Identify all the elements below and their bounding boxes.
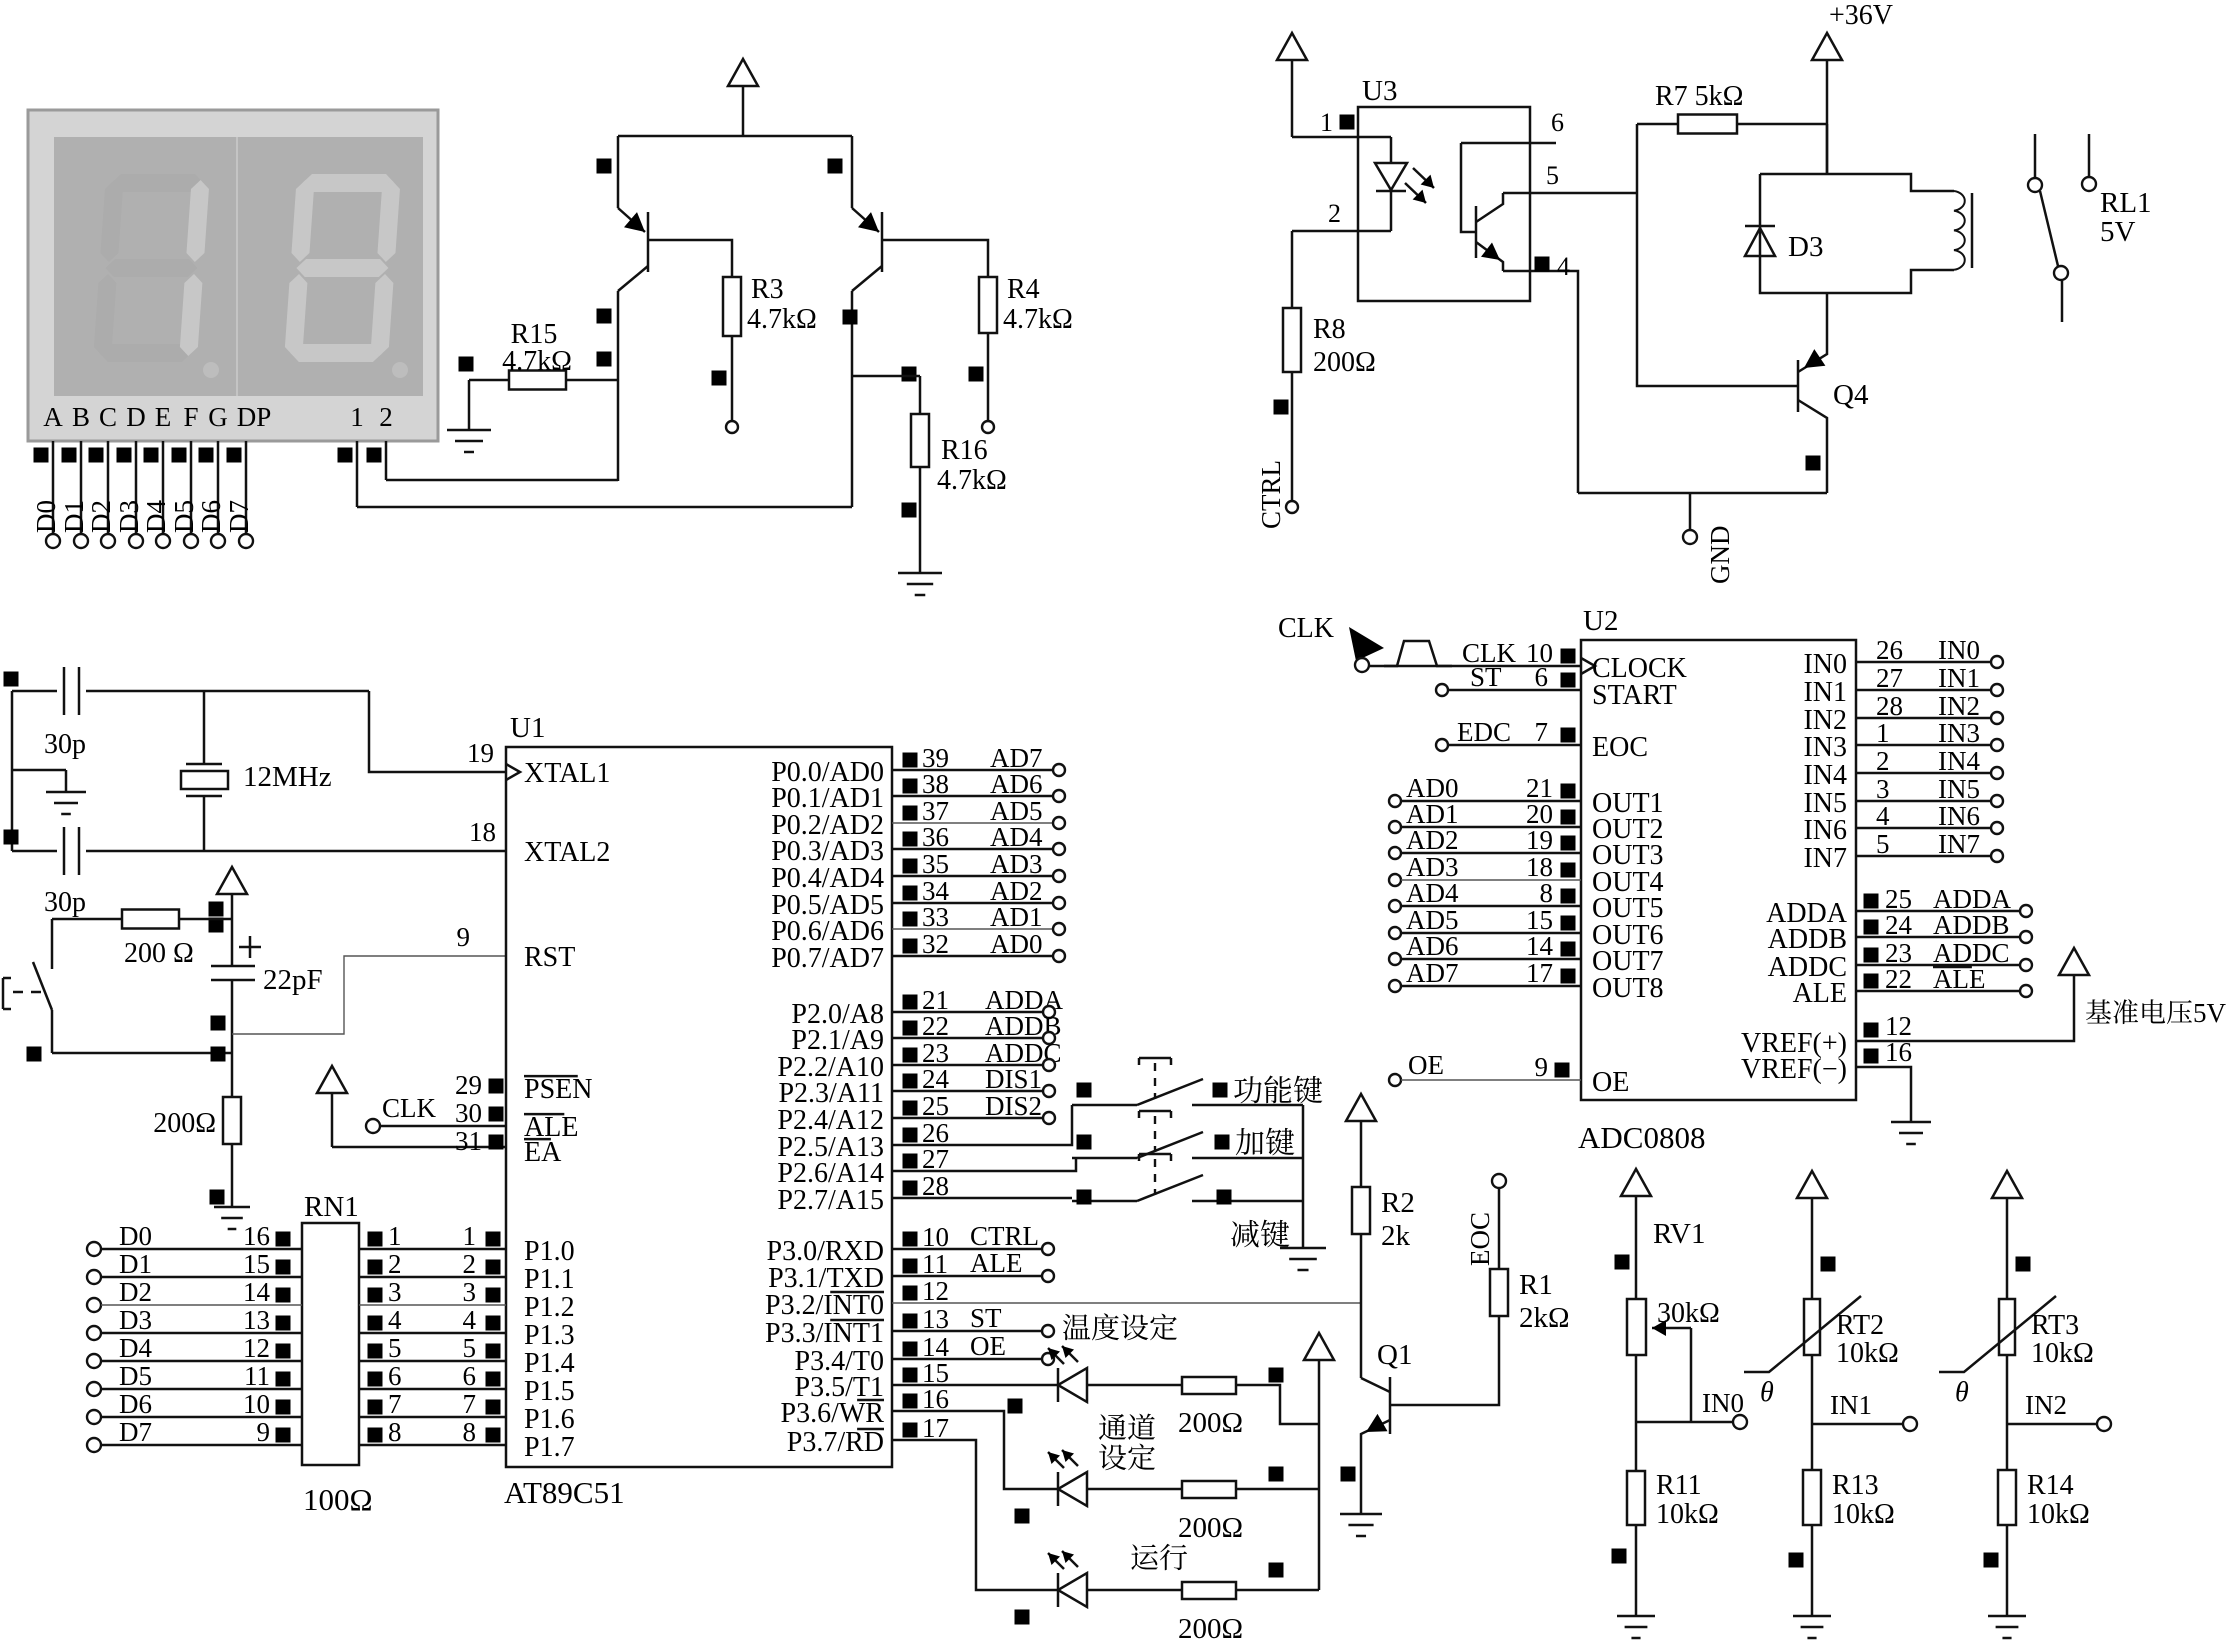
- switch actuator: [2, 978, 5, 1009]
- svg-text:27: 27: [922, 1144, 949, 1174]
- svg-text:D3: D3: [114, 500, 144, 533]
- wire AD4 to U2: [1389, 900, 1401, 912]
- wire ADDB: [892, 1037, 1043, 1040]
- capacitor 22pF plus sign: [239, 946, 261, 949]
- svg-text:D0: D0: [119, 1221, 152, 1251]
- wire Q1 base to R1: [1390, 1316, 1499, 1405]
- wire RN1 to U1 P1.7: [359, 1444, 506, 1447]
- wire P0 row AD3: [892, 875, 1053, 878]
- svg-text:D3: D3: [1788, 231, 1823, 263]
- wire pin2 to R8: [1291, 231, 1294, 308]
- svg-text:RV1: RV1: [1653, 1218, 1705, 1250]
- wire DIS2: [892, 1117, 1043, 1120]
- svg-text:DIS2: DIS2: [985, 1091, 1042, 1121]
- resistor R16: [919, 376, 922, 414]
- svg-text:AD3: AD3: [990, 849, 1043, 879]
- svg-text:19: 19: [467, 738, 494, 768]
- power VCC (EA): [317, 1066, 347, 1093]
- svg-text:11: 11: [244, 1361, 270, 1391]
- wire D0 to RN1: [87, 1242, 101, 1256]
- wire IN0: [1856, 661, 1991, 664]
- display pin D2 lead: [107, 441, 110, 534]
- svg-text:RST: RST: [524, 942, 575, 973]
- svg-text:P3.7/RD: P3.7/RD: [787, 1427, 884, 1458]
- pin 4 wire: [1503, 271, 1578, 493]
- resistor R7: [1637, 123, 1678, 126]
- transistor Q1: [1389, 1377, 1392, 1434]
- wire Q2 collector: [617, 291, 620, 481]
- svg-text:R3: R3: [751, 274, 784, 305]
- capacitor C3 22pF: [211, 965, 255, 968]
- svg-text:24: 24: [922, 1064, 950, 1094]
- wire LED2 to VCC line: [1236, 1488, 1319, 1491]
- wire AD0 to U2: [1389, 795, 1401, 807]
- svg-text:ALE: ALE: [1933, 964, 1985, 994]
- svg-text:18: 18: [469, 817, 496, 847]
- wire IN7: [1856, 855, 1991, 858]
- optocoupler U3 box: [1358, 107, 1530, 301]
- decimal point right: [392, 362, 408, 378]
- resistor R13: [1811, 1424, 1814, 1470]
- svg-text:RN1: RN1: [304, 1191, 359, 1223]
- svg-text:RL1: RL1: [2100, 187, 2152, 219]
- reference voltage arrow: [2059, 948, 2089, 975]
- svg-text:U1: U1: [510, 712, 545, 744]
- svg-text:IN6: IN6: [1803, 815, 1847, 846]
- thermistor RT3 diagonal: [1939, 1296, 2056, 1372]
- square left of R15: [459, 357, 474, 372]
- svg-text:9: 9: [457, 922, 471, 952]
- CLK waveform: [1384, 641, 1452, 666]
- node square Q3 collector: [843, 310, 858, 325]
- svg-text:4.7kΩ: 4.7kΩ: [747, 304, 817, 335]
- R4 terminal: [982, 421, 994, 433]
- display pin D4 lead: [162, 441, 165, 534]
- wire AD2 to U2: [1389, 847, 1401, 859]
- svg-text:OUT8: OUT8: [1592, 973, 1664, 1004]
- svg-text:ALE: ALE: [970, 1248, 1022, 1278]
- wire AD6 to U2: [1389, 953, 1401, 965]
- CLOCK clock mark: [1581, 658, 1595, 674]
- svg-text:IN0: IN0: [1938, 635, 1980, 665]
- power VCC (LEDs): [1304, 1333, 1334, 1360]
- svg-text:1: 1: [463, 1221, 477, 1251]
- svg-text:5: 5: [463, 1333, 477, 1363]
- power VCC (RV1): [1621, 1169, 1651, 1196]
- svg-text:30p: 30p: [44, 887, 86, 918]
- wire P0 row AD6: [892, 795, 1053, 798]
- wire IN3: [1856, 744, 1991, 747]
- svg-text:AD0: AD0: [990, 929, 1043, 959]
- svg-text:R7 5kΩ: R7 5kΩ: [1655, 81, 1743, 112]
- svg-text:1: 1: [1876, 718, 1890, 748]
- svg-text:U2: U2: [1583, 605, 1618, 637]
- svg-text:ADDB: ADDB: [1768, 924, 1847, 955]
- resistor R14: [2006, 1424, 2009, 1470]
- svg-text:6: 6: [463, 1361, 477, 1391]
- relay armature: [2040, 191, 2058, 266]
- wire emitter rail: [618, 135, 852, 138]
- relay contact RL1 right: [2088, 134, 2091, 177]
- base wire Q2 to R3: [648, 240, 732, 277]
- svg-text:AD4: AD4: [990, 822, 1043, 852]
- wire IN0: [1636, 1421, 1733, 1424]
- display pin D5 lead: [190, 441, 193, 534]
- wire IN5: [1856, 800, 1991, 803]
- svg-text:22: 22: [922, 1011, 949, 1041]
- resistor R15: [469, 379, 509, 382]
- svg-text:16: 16: [922, 1384, 949, 1414]
- svg-text:17: 17: [1526, 958, 1553, 988]
- svg-text:16: 16: [243, 1221, 270, 1251]
- wire VREF- to ground: [1856, 1067, 1911, 1120]
- squares LED1 row: [1008, 1399, 1023, 1414]
- svg-text:R16: R16: [941, 435, 988, 466]
- svg-text:11: 11: [922, 1249, 948, 1279]
- svg-text:10kΩ: 10kΩ: [1656, 1499, 1719, 1530]
- key S4 (decrease key): [892, 1197, 1072, 1200]
- CLK terminal: [366, 1119, 380, 1133]
- svg-text:P3.6/WR: P3.6/WR: [781, 1398, 885, 1429]
- svg-text:D4: D4: [141, 500, 171, 533]
- display pin D0 lead: [52, 441, 55, 534]
- ground (R14): [2006, 1614, 2009, 1616]
- svg-text:10: 10: [922, 1222, 949, 1252]
- label run: [1131, 1544, 1158, 1570]
- svg-text:200Ω: 200Ω: [1313, 347, 1376, 378]
- svg-text:A: A: [43, 402, 63, 432]
- transistor Q3 (right digit driver): [851, 136, 854, 208]
- svg-text:D5: D5: [119, 1361, 152, 1391]
- wire D4 to RN1: [87, 1354, 101, 1368]
- wire AD7 to U2: [1389, 980, 1401, 992]
- svg-text:30: 30: [455, 1098, 482, 1128]
- svg-text:EDC: EDC: [1457, 717, 1511, 747]
- svg-text:AD1: AD1: [990, 902, 1043, 932]
- resistor R2: [1352, 1187, 1370, 1234]
- svg-text:RT2: RT2: [1836, 1310, 1884, 1341]
- svg-text:XTAL2: XTAL2: [524, 837, 610, 868]
- node squares near Q2: [597, 159, 612, 174]
- power VCC (RST): [217, 867, 247, 894]
- svg-text:10kΩ: 10kΩ: [2031, 1338, 2094, 1369]
- svg-text:14: 14: [243, 1277, 271, 1307]
- svg-text:CLK: CLK: [1278, 613, 1334, 644]
- svg-text:22: 22: [1885, 964, 1912, 994]
- svg-text:6: 6: [388, 1361, 402, 1391]
- svg-text:C: C: [99, 402, 117, 432]
- XTAL1 clock mark: [506, 764, 520, 780]
- svg-text:D4: D4: [119, 1333, 152, 1363]
- svg-text:2: 2: [1328, 199, 1341, 228]
- svg-text:EOC: EOC: [1592, 732, 1648, 763]
- svg-text:5: 5: [1876, 829, 1890, 859]
- keys common bus: [1302, 1105, 1305, 1244]
- svg-text:θ: θ: [1955, 1377, 1969, 1408]
- power VCC (CTRL side): [1277, 33, 1307, 60]
- switch bottom rail: [52, 1052, 232, 1055]
- svg-text:P1.0: P1.0: [524, 1236, 575, 1267]
- svg-text:D0: D0: [31, 500, 61, 533]
- wire RN1 to U1 P1.2: [359, 1304, 506, 1306]
- GND stub: [1689, 493, 1692, 530]
- wire RN1 to U1 P1.0: [359, 1248, 506, 1251]
- svg-text:P1.1: P1.1: [524, 1264, 575, 1295]
- svg-text:P3.2/INT0: P3.2/INT0: [765, 1290, 884, 1321]
- resistor R8: [1291, 307, 1294, 310]
- svg-text:8: 8: [1540, 878, 1554, 908]
- svg-text:2: 2: [1876, 746, 1890, 776]
- crystal Y1 12MHz: [203, 691, 206, 764]
- wire to R16: [852, 375, 920, 378]
- square RT3 top: [2016, 1257, 2031, 1272]
- svg-text:Q4: Q4: [1833, 379, 1869, 411]
- svg-text:200Ω: 200Ω: [1178, 1613, 1243, 1640]
- svg-text:6: 6: [1535, 662, 1549, 692]
- square RV1: [1615, 1255, 1630, 1270]
- svg-text:8: 8: [463, 1417, 477, 1447]
- svg-text:P1.4: P1.4: [524, 1348, 575, 1379]
- svg-text:R2: R2: [1381, 1187, 1415, 1219]
- display pin D6 lead: [217, 441, 220, 534]
- svg-text:IN4: IN4: [1803, 760, 1847, 791]
- svg-text:B: B: [72, 402, 90, 432]
- squares RST node: [211, 1016, 226, 1031]
- decimal point left: [203, 362, 219, 378]
- svg-text:AD6: AD6: [1406, 931, 1459, 961]
- svg-text:DP: DP: [237, 402, 272, 432]
- wire U3 pin1: [1292, 136, 1391, 139]
- capacitor C2 30p: [12, 850, 57, 853]
- wire ST: [1436, 684, 1448, 696]
- wire CTRL: [892, 1248, 1041, 1251]
- label function key: [1234, 1076, 1262, 1103]
- square R14: [1984, 1553, 1999, 1568]
- svg-text:CTRL: CTRL: [1256, 460, 1286, 529]
- ground (keys): [1302, 1244, 1305, 1248]
- svg-text:IN0: IN0: [1702, 1388, 1744, 1418]
- wire OE to U2: [1389, 1074, 1401, 1086]
- power VCC (R2): [1346, 1094, 1376, 1121]
- svg-text:9: 9: [257, 1417, 271, 1447]
- display pin 2 lead: [367, 448, 382, 463]
- square CTRL: [1274, 400, 1289, 415]
- svg-text:6: 6: [1551, 108, 1564, 137]
- svg-text:36: 36: [922, 822, 949, 852]
- svg-text:AD2: AD2: [1406, 825, 1459, 855]
- svg-text:2kΩ: 2kΩ: [1519, 1302, 1570, 1334]
- svg-text:R4: R4: [1007, 274, 1040, 305]
- svg-text:2: 2: [379, 402, 393, 432]
- wire display pin2 to Q2 collector: [386, 479, 618, 482]
- svg-text:ST: ST: [1470, 662, 1502, 692]
- svg-text:3: 3: [1876, 774, 1890, 804]
- LED D5 (channel set): [892, 1411, 1058, 1489]
- svg-text:D6: D6: [196, 500, 226, 533]
- svg-text:OE: OE: [1408, 1050, 1444, 1080]
- svg-text:D5: D5: [169, 500, 199, 533]
- svg-text:12: 12: [243, 1333, 270, 1363]
- resistor (RST pulldown) 200 Ohm: [231, 1053, 234, 1097]
- wire ADDB (U2 out): [1856, 936, 2020, 939]
- svg-text:7: 7: [463, 1389, 477, 1419]
- wire ADDC (U2 out): [1856, 964, 2020, 967]
- svg-text:22pF: 22pF: [263, 964, 323, 996]
- svg-text:D2: D2: [119, 1277, 152, 1307]
- phototransistor in U3: [1475, 206, 1478, 258]
- square R13: [1789, 1553, 1804, 1568]
- wire AD5 to U2: [1389, 927, 1401, 939]
- svg-text:4: 4: [388, 1305, 402, 1335]
- svg-text:2k: 2k: [1381, 1220, 1411, 1252]
- wire IN6: [1856, 827, 1991, 830]
- svg-text:25: 25: [922, 1091, 949, 1121]
- svg-text:4.7kΩ: 4.7kΩ: [1003, 304, 1073, 335]
- EOC terminal (R1): [1492, 1174, 1506, 1188]
- wire EDC: [1436, 739, 1448, 751]
- svg-text:5V: 5V: [2100, 216, 2136, 248]
- wire ADDC: [892, 1064, 1043, 1067]
- svg-text:OE: OE: [1592, 1067, 1629, 1098]
- svg-text:10kΩ: 10kΩ: [1836, 1338, 1899, 1369]
- wire D5 to RN1: [87, 1382, 101, 1396]
- svg-text:19: 19: [1526, 825, 1553, 855]
- svg-text:38: 38: [922, 769, 949, 799]
- svg-text:3: 3: [463, 1277, 477, 1307]
- svg-text:ADDB: ADDB: [1933, 910, 2010, 940]
- svg-text:26: 26: [1876, 635, 1903, 665]
- resistor network RN1 box: [302, 1223, 359, 1465]
- potentiometer RV1 body: [1627, 1299, 1646, 1355]
- svg-text:24: 24: [1885, 910, 1913, 940]
- wire RN1 to U1 P1.3: [359, 1332, 506, 1335]
- label increase key: [1236, 1128, 1264, 1155]
- ground (R13): [1811, 1614, 1814, 1616]
- svg-text:IN5: IN5: [1938, 774, 1980, 804]
- resistor R11: [1635, 1422, 1638, 1471]
- wire DIS1: [892, 1090, 1043, 1093]
- svg-text:28: 28: [922, 1171, 949, 1201]
- svg-text:32: 32: [922, 929, 949, 959]
- ground (R11): [1635, 1614, 1638, 1616]
- svg-text:PSEN: PSEN: [524, 1074, 592, 1105]
- relay core bar: [1971, 193, 1974, 268]
- svg-text:ST: ST: [970, 1303, 1002, 1333]
- svg-text:R13: R13: [1832, 1470, 1879, 1501]
- ground (RST): [231, 1205, 234, 1207]
- svg-text:D7: D7: [119, 1417, 152, 1447]
- wire R7 left vertical: [1637, 124, 1798, 386]
- wire LED3 to VCC line: [1236, 1589, 1319, 1592]
- svg-text:P2.7/A15: P2.7/A15: [777, 1185, 884, 1216]
- svg-text:33: 33: [922, 902, 949, 932]
- svg-text:29: 29: [455, 1070, 482, 1100]
- svg-text:P0.7/AD7: P0.7/AD7: [771, 943, 884, 974]
- svg-text:IN0: IN0: [1803, 649, 1847, 680]
- svg-text:IN4: IN4: [1938, 746, 1980, 776]
- svg-text:R14: R14: [2027, 1470, 2074, 1501]
- left vertical wire: [11, 691, 14, 851]
- squares LED2 row: [1015, 1509, 1030, 1524]
- svg-text:15: 15: [243, 1249, 270, 1279]
- svg-text:28: 28: [1876, 691, 1903, 721]
- svg-text:7: 7: [388, 1389, 402, 1419]
- svg-text:IN2: IN2: [2025, 1390, 2067, 1420]
- wire display pin1 to Q3 collector: [357, 506, 852, 509]
- thermistor RT2 diagonal: [1744, 1296, 1861, 1372]
- svg-text:10: 10: [243, 1389, 270, 1419]
- display pin 1 lead: [338, 448, 353, 463]
- svg-text:P1.2: P1.2: [524, 1292, 575, 1323]
- CTRL terminal: [1286, 501, 1298, 513]
- 7-segment display module DS1: [28, 110, 438, 441]
- svg-text:35: 35: [922, 849, 949, 879]
- ground (Q1): [1360, 1512, 1363, 1514]
- ground (R16): [919, 555, 922, 573]
- svg-text:200Ω: 200Ω: [153, 1108, 216, 1139]
- svg-text:RT3: RT3: [2031, 1310, 2079, 1341]
- wire LED1 to VCC line: [1236, 1385, 1319, 1424]
- digit 1 (left, showing 1): [93, 174, 210, 362]
- wire P0 row AD1: [892, 928, 1053, 930]
- wire VREF+ to reference: [1856, 983, 2074, 1041]
- R3 terminal: [726, 421, 738, 433]
- svg-text:R8: R8: [1313, 314, 1346, 345]
- pin number 4: [1535, 257, 1550, 272]
- svg-text:12: 12: [922, 1276, 949, 1306]
- wire ADDA (U2 out): [1856, 910, 2020, 913]
- svg-text:9: 9: [1535, 1052, 1549, 1082]
- svg-text:4: 4: [463, 1305, 477, 1335]
- resistor (LED3) 200 Ohm: [1182, 1582, 1236, 1599]
- squares LED3 row: [1015, 1610, 1030, 1625]
- wire P0 row AD7: [892, 769, 1053, 772]
- resistor R1: [1490, 1269, 1508, 1316]
- wire IN1: [1856, 689, 1991, 692]
- wire IN2: [2007, 1423, 2097, 1426]
- svg-text:EOC: EOC: [1465, 1212, 1495, 1266]
- wire CLK to U2: [1369, 665, 1581, 668]
- resistor (LED2) 200 Ohm: [1182, 1481, 1236, 1498]
- svg-text:ADC0808: ADC0808: [1578, 1120, 1705, 1155]
- svg-text:IN1: IN1: [1938, 663, 1980, 693]
- svg-text:5: 5: [388, 1333, 402, 1363]
- svg-text:D1: D1: [59, 500, 89, 533]
- svg-text:F: F: [183, 402, 198, 432]
- bottom rail (opto section): [1578, 492, 1827, 495]
- svg-text:31: 31: [455, 1126, 482, 1156]
- svg-text:13: 13: [922, 1304, 949, 1334]
- svg-text:AD7: AD7: [1406, 958, 1459, 988]
- reset switch S1: [51, 919, 54, 969]
- wire Q3 collector: [851, 291, 854, 507]
- svg-text:START: START: [1592, 680, 1677, 711]
- wire D2 to RN1: [87, 1298, 101, 1312]
- svg-text:200Ω: 200Ω: [1178, 1407, 1243, 1439]
- squares near R4/R16: [902, 367, 917, 382]
- svg-text:E: E: [155, 402, 172, 432]
- svg-text:CTRL: CTRL: [970, 1221, 1039, 1251]
- svg-text:+36V: +36V: [1829, 0, 1893, 31]
- svg-text:30p: 30p: [44, 729, 86, 760]
- svg-text:14: 14: [1526, 931, 1554, 961]
- svg-text:D1: D1: [119, 1249, 152, 1279]
- svg-text:XTAL1: XTAL1: [524, 758, 610, 789]
- svg-text:D: D: [126, 402, 146, 432]
- wire INT0 to Q1 collector: [892, 1302, 1361, 1304]
- wire D7 to RN1: [87, 1438, 101, 1452]
- wire D3 to RN1: [87, 1326, 101, 1340]
